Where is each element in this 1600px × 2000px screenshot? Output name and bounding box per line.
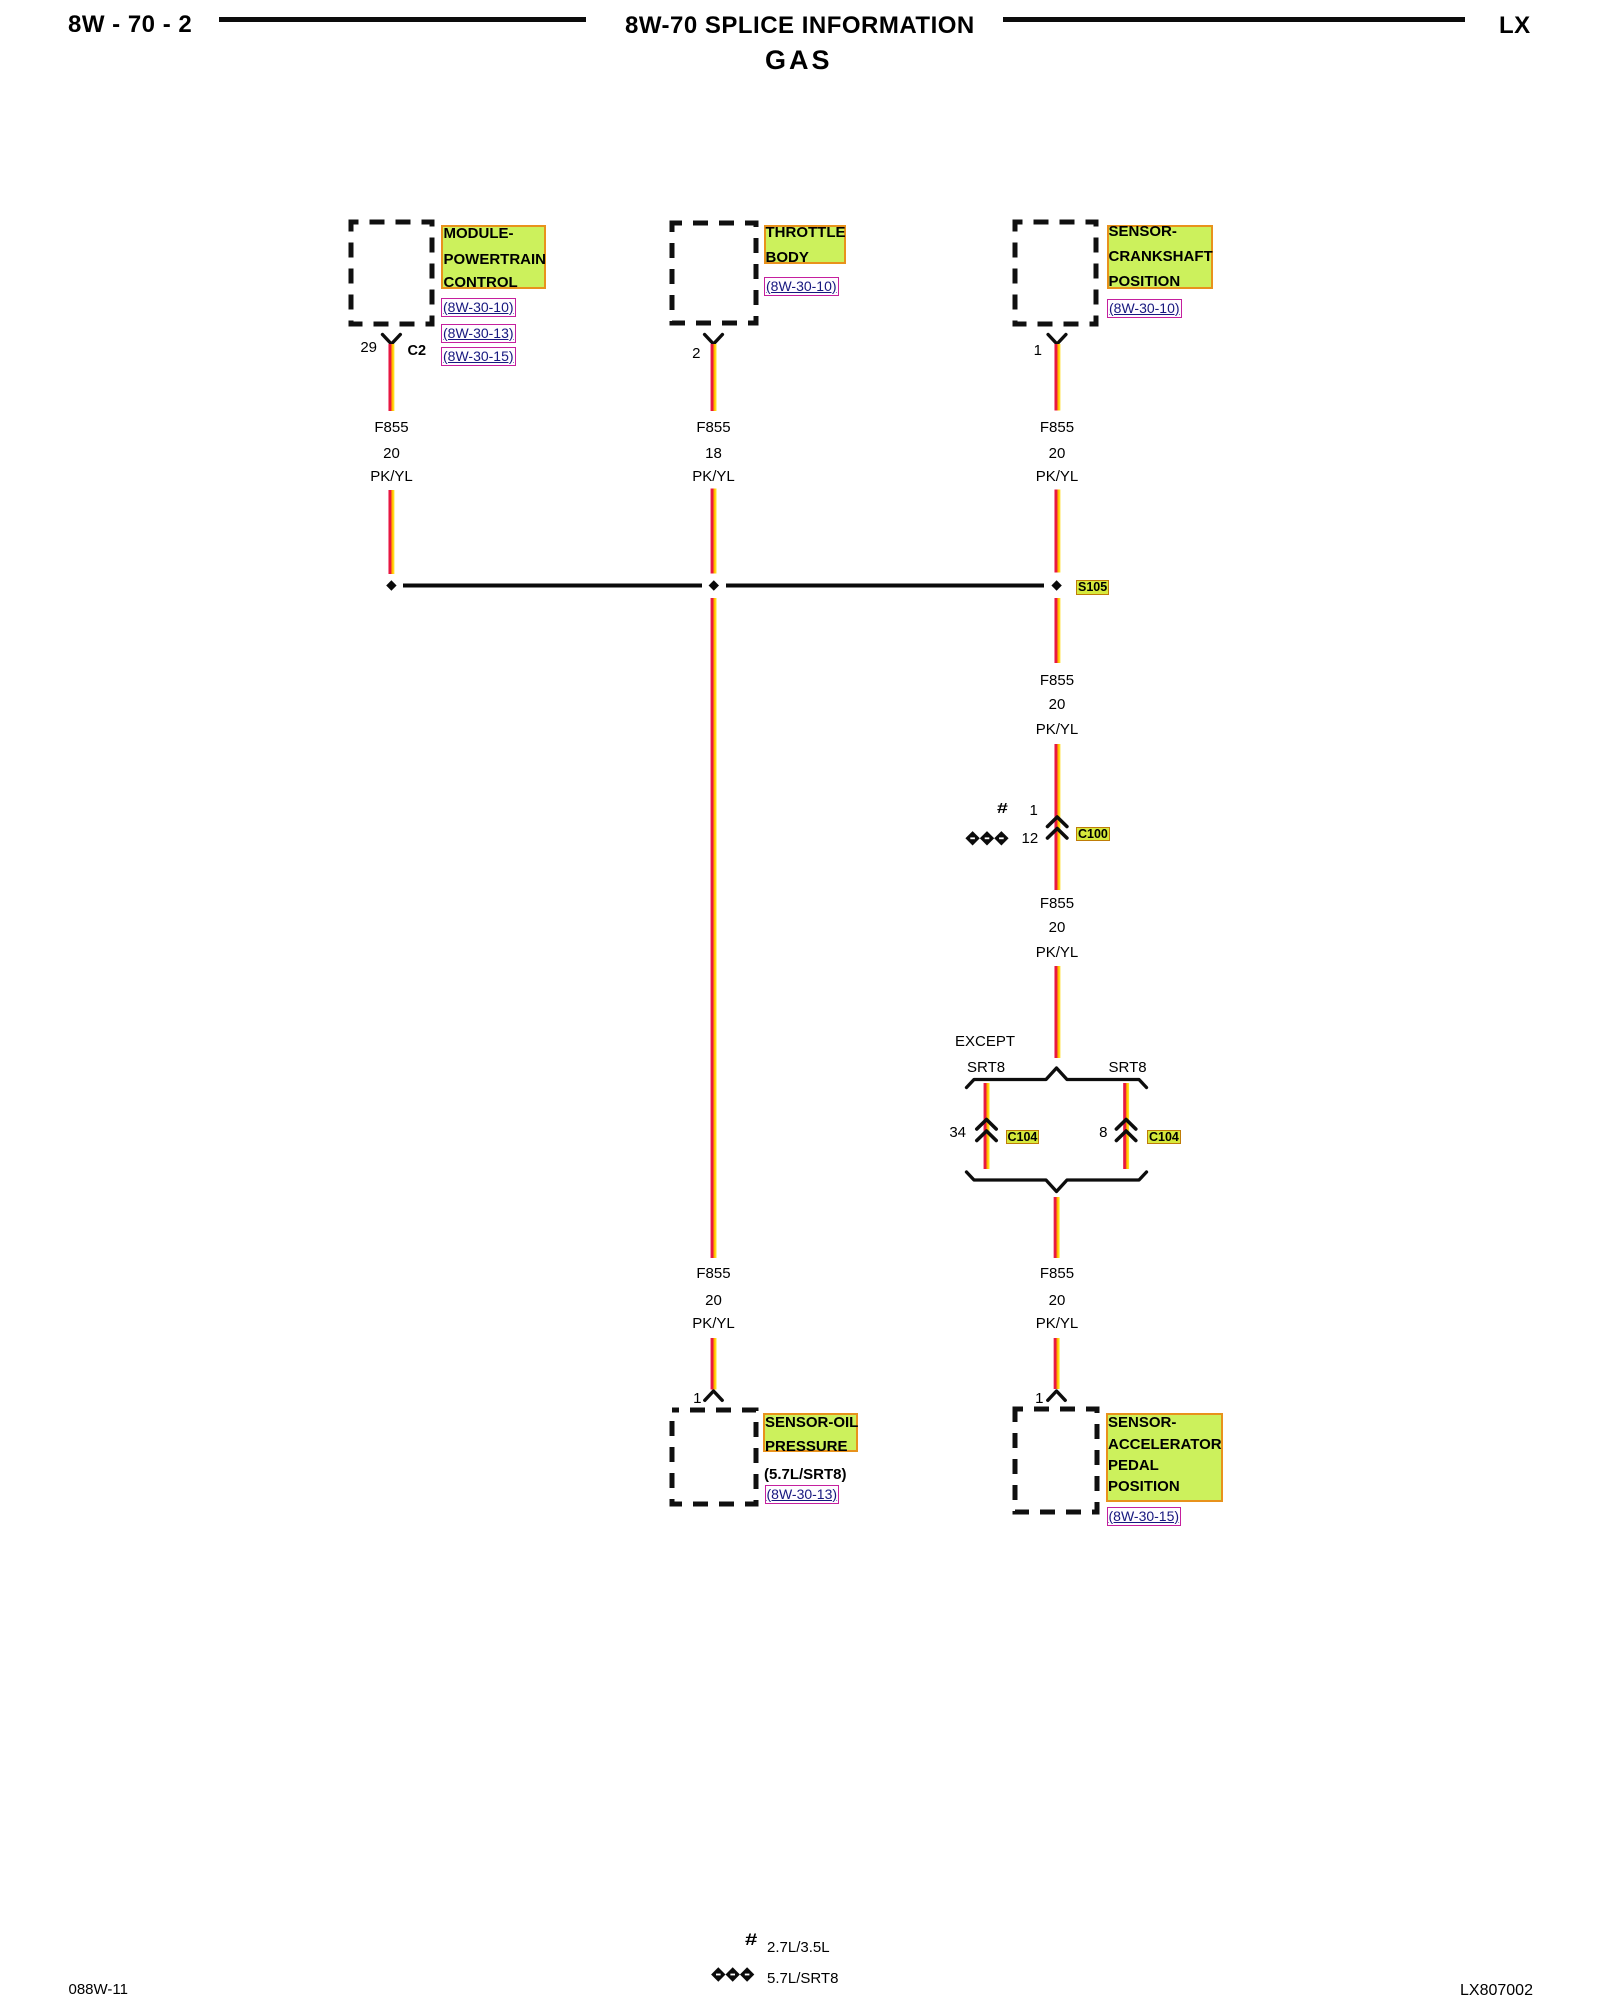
pin 1 C100 xyxy=(1030,803,1038,818)
wire branch right (SRT8) xyxy=(1123,1083,1129,1169)
link 8W-30-15 accelerator pedal xyxy=(1107,1507,1182,1526)
page code LX xyxy=(1499,14,1531,38)
link 8W-30-10 col3 xyxy=(1107,299,1182,318)
header rule right xyxy=(1003,17,1465,22)
wire F855 18 PK/YL col2 lower xyxy=(711,489,717,574)
wire label col3 lower F855 20 xyxy=(987,896,1127,911)
page number 8W - 70 - 2 xyxy=(68,13,192,37)
wire col2 long run to oil pressure sensor xyxy=(711,598,717,1258)
note 5.7L/SRT8 xyxy=(764,1467,847,1482)
wire col3 below C100 labels to brace xyxy=(1054,966,1060,1058)
engine code hash 2.7L/3.5L at C100 xyxy=(997,801,1008,816)
link 8W-30-10 col2 xyxy=(764,277,839,296)
brace split top xyxy=(967,1068,1147,1088)
connector symbol throttle body pin 2 xyxy=(705,335,723,345)
splice label S105 xyxy=(1076,580,1109,595)
connector box: throttle body xyxy=(672,223,756,323)
label sensor-crankshaft position background xyxy=(1107,225,1213,289)
wire col3 to accelerator pedal sensor xyxy=(1054,1338,1060,1389)
brace merge bottom xyxy=(967,1172,1147,1192)
link 8W-30-15 col1 xyxy=(441,347,516,366)
wire F855 20 PK/YL col3 upper xyxy=(1054,344,1060,411)
pin 1 oil pressure xyxy=(658,1391,702,1406)
connector symbol C2 pin 29 xyxy=(383,335,401,345)
splice junction node col1 xyxy=(386,580,396,590)
wire col3 label to C100 and below xyxy=(1054,744,1060,890)
legend 5.7L/SRT8 xyxy=(767,1971,838,1986)
wire branch left (except SRT8) xyxy=(984,1083,990,1169)
in-line connector C104 left chevrons xyxy=(977,1120,996,1141)
pin 8 C104 right xyxy=(1064,1125,1108,1140)
label throttle body background xyxy=(764,225,846,264)
link 8W-30-13 col1 xyxy=(441,324,516,343)
pin 1 accelerator pedal xyxy=(1000,1391,1044,1406)
label module-powertrain control background xyxy=(441,225,546,289)
branch label EXCEPT SRT8 xyxy=(955,1034,1015,1049)
header rule left xyxy=(219,17,586,22)
wire label col3 mid F855 20 xyxy=(987,673,1127,688)
connector name C2 xyxy=(408,344,427,359)
connector label C104 right xyxy=(1147,1130,1181,1145)
label sensor-accelerator pedal position background xyxy=(1106,1413,1223,1502)
title GAS xyxy=(765,47,833,74)
wire label col2 F855 18 xyxy=(644,420,784,435)
wire label col3 F855 20 xyxy=(987,420,1127,435)
connector symbol accelerator pedal pin 1 xyxy=(1048,1391,1065,1400)
wire col2 below label block xyxy=(711,1338,717,1390)
pin 1 crankshaft xyxy=(998,343,1042,358)
link 8W-30-10 col1 xyxy=(441,298,516,317)
pin 29 xyxy=(333,340,377,355)
engine option diamonds at C100 xyxy=(965,831,1008,845)
sheet code LX807002 xyxy=(1460,1983,1533,1999)
connector box: module-powertrain control xyxy=(351,222,432,324)
branch label SRT8 xyxy=(1109,1060,1147,1075)
in-line connector C100 chevrons xyxy=(1048,817,1067,838)
pin 34 C104 left xyxy=(922,1125,966,1140)
pin 12 C100 xyxy=(1022,831,1039,846)
splice bus S105 segment left xyxy=(403,584,702,588)
in-line connector C104 right chevrons xyxy=(1116,1120,1135,1141)
connector box: sensor-crankshaft position xyxy=(1015,222,1096,324)
wire F855 20 PK/YL col1 lower xyxy=(388,490,394,574)
wire col3 bus to label xyxy=(1054,598,1060,663)
wire label col3 bottom F855 20 xyxy=(987,1266,1127,1281)
wire label col1 F855 xyxy=(322,420,462,435)
wire F855 20 PK/YL col3 lower xyxy=(1054,490,1060,573)
connector symbol crankshaft sensor pin 1 xyxy=(1048,335,1066,345)
legend hash 2.7L/3.5L xyxy=(745,1931,757,1948)
wire F855 18 PK/YL col2 upper xyxy=(711,344,717,411)
splice bus S105 segment right xyxy=(726,584,1044,588)
link 8W-30-13 oil pressure xyxy=(765,1485,840,1504)
splice junction node col2 xyxy=(709,580,719,590)
wire col3 merge to label block xyxy=(1054,1197,1060,1258)
pin 2 xyxy=(657,346,701,361)
label sensor-oil pressure background xyxy=(763,1413,858,1452)
connector box: sensor-accelerator pedal position xyxy=(1015,1409,1097,1512)
splice junction node S105 xyxy=(1051,580,1061,590)
wire F855 20 PK/YL col1 upper xyxy=(388,344,394,411)
wire label col2 bottom F855 20 xyxy=(644,1266,784,1281)
connector label C104 left xyxy=(1006,1130,1040,1145)
connector box: sensor-oil pressure xyxy=(672,1410,756,1504)
connector label C100 xyxy=(1076,827,1110,842)
sheet number 088W-11 xyxy=(69,1982,128,1997)
legend engine option diamonds 5.7L/SRT8 xyxy=(711,1967,754,1981)
connector symbol oil pressure pin 1 xyxy=(705,1391,722,1400)
title 8W-70 SPLICE INFORMATION xyxy=(625,14,975,38)
